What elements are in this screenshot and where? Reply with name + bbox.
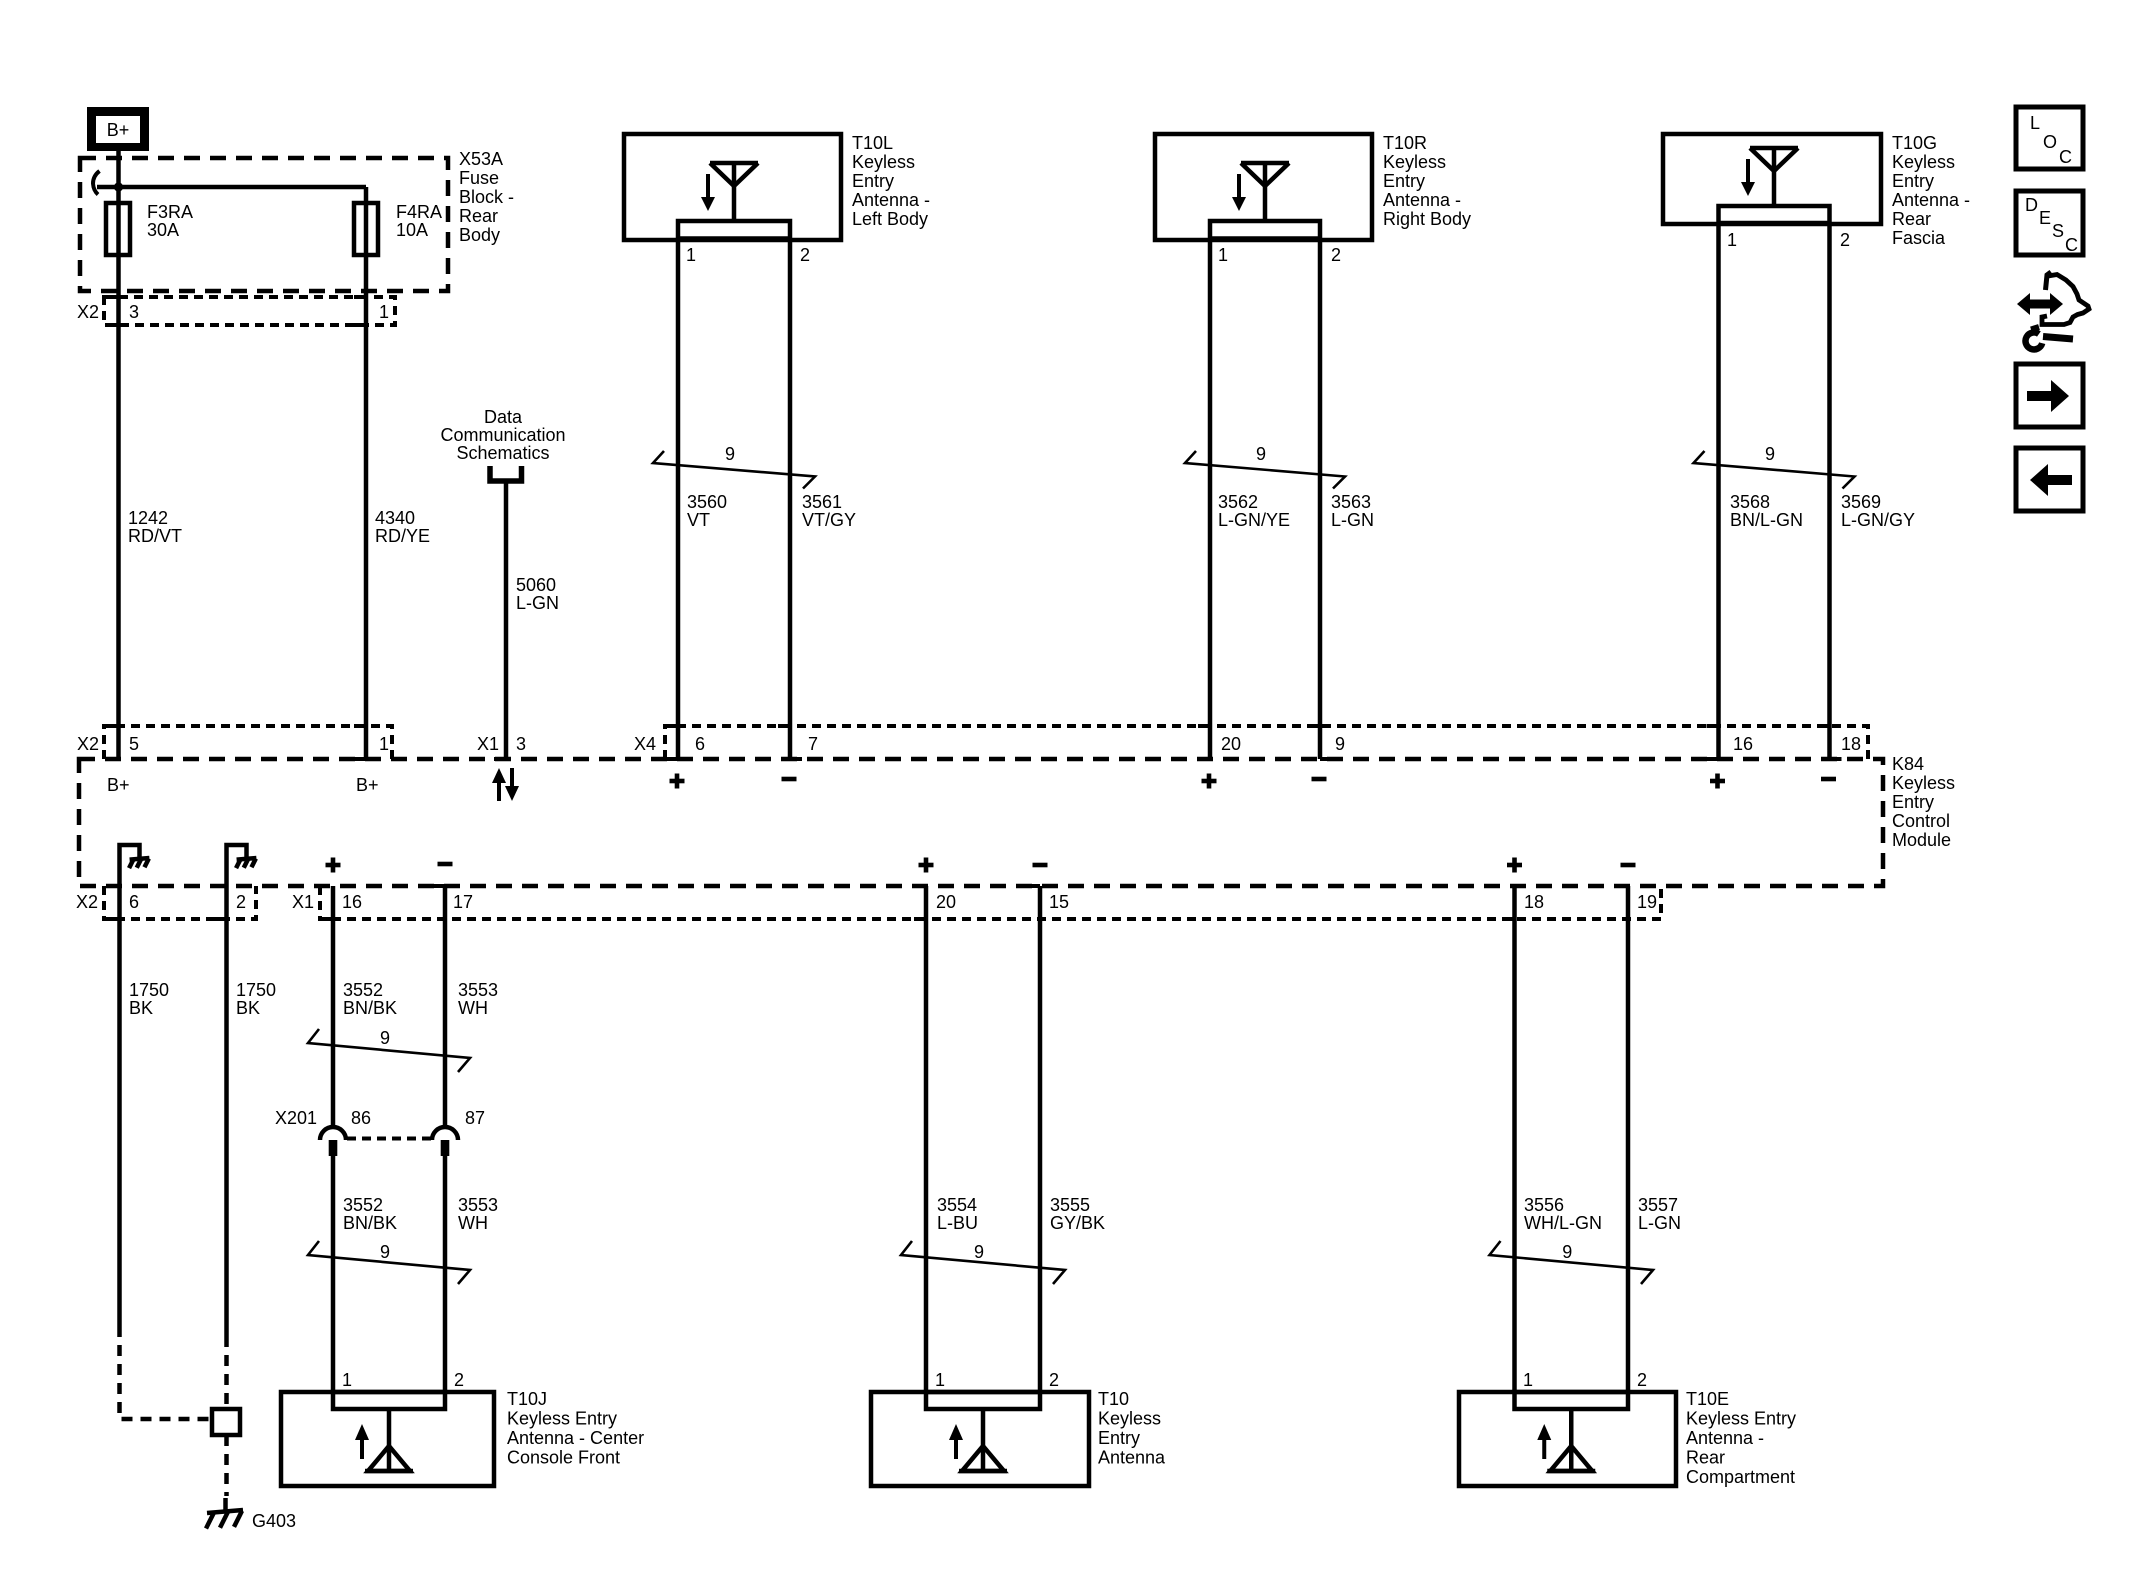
svg-text:2: 2 [1331, 245, 1341, 265]
svg-text:9: 9 [725, 444, 735, 464]
icon LOC box [2016, 107, 2083, 169]
svg-text:D: D [2025, 195, 2038, 215]
svg-text:3553: 3553 [458, 980, 498, 1000]
svg-text:T10J: T10J [507, 1389, 547, 1409]
svg-text:Console Front: Console Front [507, 1448, 620, 1468]
svg-text:2: 2 [236, 892, 246, 912]
svg-text:6: 6 [129, 892, 139, 912]
keyless antenna T10J box [281, 1392, 494, 1486]
svg-text:7: 7 [808, 734, 818, 754]
label T10R Keyless Entry Antenna - Right Body [1383, 133, 1471, 229]
label T10L Keyless Entry Antenna - Left Body [852, 133, 930, 229]
svg-text:O: O [2043, 132, 2057, 152]
svg-text:20: 20 [936, 892, 956, 912]
svg-text:X2: X2 [77, 734, 99, 754]
wire label 3555 GY/BK [1050, 1195, 1105, 1233]
svg-text:L-GN/YE: L-GN/YE [1218, 510, 1290, 530]
svg-text:86: 86 [351, 1108, 371, 1128]
svg-text:B+: B+ [107, 775, 130, 795]
wire 1750 BK from pin X2-2 [224, 886, 229, 1409]
svg-text:B+: B+ [356, 775, 379, 795]
icon next page arrow [2016, 364, 2083, 427]
connector X2 of fuse block (pins 3 and 1) [77, 297, 395, 325]
label X53A Fuse Block - Rear Body [459, 149, 514, 245]
svg-text:Data: Data [484, 407, 523, 427]
wire through fuse F4RA down to K84 pin X2-1 [364, 187, 369, 759]
svg-text:L-GN/GY: L-GN/GY [1841, 510, 1915, 530]
connector X2 top of K84 (pins 5,1) [77, 726, 392, 759]
keyless antenna T10 box [871, 1392, 1089, 1486]
twisted pair marker T10E [1490, 1241, 1654, 1284]
svg-text:1750: 1750 [236, 980, 276, 1000]
wire 5060 L-GN from data link to K84 pin X1-3 [504, 483, 509, 759]
svg-text:9: 9 [1335, 734, 1345, 754]
svg-text:Keyless: Keyless [1098, 1409, 1161, 1429]
node B+ battery terminal [87, 107, 149, 151]
svg-text:3562: 3562 [1218, 492, 1258, 512]
wire label 3553 WH (lower) [458, 1195, 498, 1233]
wire 3561 VT/GY from T10L pin 2 to K84 X4-7 [788, 238, 793, 759]
svg-text:Antenna -: Antenna - [1892, 190, 1970, 210]
svg-text:3556: 3556 [1524, 1195, 1564, 1215]
T10R pin labels 1 and 2 [1218, 245, 1341, 265]
twisted pair marker upper T10J [308, 1028, 470, 1072]
svg-text:3569: 3569 [1841, 492, 1881, 512]
svg-text:3554: 3554 [937, 1195, 977, 1215]
svg-text:Compartment: Compartment [1686, 1467, 1795, 1487]
svg-text:16: 16 [342, 892, 362, 912]
label T10E Keyless Entry Antenna - Rear Compartment [1686, 1389, 1796, 1487]
label K84 Keyless Entry Control Module [1892, 754, 1955, 850]
svg-text:Entry: Entry [852, 171, 894, 191]
svg-text:K84: K84 [1892, 754, 1924, 774]
svg-text:9: 9 [974, 1242, 984, 1262]
T10J pin labels 1 and 2 [342, 1370, 464, 1390]
junction dot at fuse bus [114, 182, 123, 191]
svg-text:2: 2 [800, 245, 810, 265]
svg-text:T10L: T10L [852, 133, 893, 153]
wire label 5060 L-GN [516, 575, 559, 613]
serial data arrows at pin X1-3 [492, 768, 519, 801]
fuse block X53A dashed outline [80, 158, 448, 291]
wire 1750 BK from pin X2-6 [120, 886, 213, 1419]
svg-text:2: 2 [1049, 1370, 1059, 1390]
svg-text:C: C [2065, 235, 2078, 255]
wire label 1750 BK (right) [236, 980, 276, 1018]
polarity marks at bottom pins [326, 858, 1636, 873]
svg-text:3563: 3563 [1331, 492, 1371, 512]
keyless antenna T10G box [1663, 134, 1881, 224]
svg-text:Communication: Communication [440, 425, 565, 445]
svg-text:10A: 10A [396, 220, 428, 240]
svg-text:X2: X2 [77, 302, 99, 322]
svg-text:BN/BK: BN/BK [343, 998, 397, 1018]
wire label 3553 WH (upper) [458, 980, 498, 1018]
svg-text:X53A: X53A [459, 149, 503, 169]
svg-text:1: 1 [935, 1370, 945, 1390]
svg-text:3568: 3568 [1730, 492, 1770, 512]
svg-text:X201: X201 [275, 1108, 317, 1128]
svg-text:1: 1 [379, 302, 389, 322]
svg-text:1750: 1750 [129, 980, 169, 1000]
svg-text:6: 6 [695, 734, 705, 754]
svg-text:Keyless: Keyless [1892, 152, 1955, 172]
wire label 1242 RD/VT [128, 508, 182, 546]
svg-text:Keyless: Keyless [852, 152, 915, 172]
wire 3568 BN/L-GN from T10G pin 1 to K84 pin 16 [1716, 223, 1721, 759]
svg-text:4340: 4340 [375, 508, 415, 528]
connector X1 pin 3 of K84 [477, 734, 526, 759]
label T10 Keyless Entry Antenna [1098, 1389, 1166, 1468]
wire 3555 GY/BK from K84 pin 15 to T10 pin 2 [1038, 886, 1043, 1392]
wire label 1750 BK (left) [129, 980, 169, 1018]
connector pins 20,15 bottom of K84 [914, 886, 1069, 919]
svg-text:3552: 3552 [343, 980, 383, 1000]
svg-text:Body: Body [459, 225, 500, 245]
wire 3560 VT from T10L pin 1 to K84 X4-6 [676, 238, 681, 759]
svg-text:Fascia: Fascia [1892, 228, 1946, 248]
wire internal bus from F3RA to F4RA [97, 185, 366, 190]
wire 3553 WH from K84 X1-17 to X201-87 [443, 886, 448, 1127]
wire 3557 L-GN from K84 pin 19 to T10E pin 2 [1626, 886, 1631, 1392]
svg-text:VT/GY: VT/GY [802, 510, 856, 530]
connector X201 pins 86,87 [275, 1108, 485, 1156]
polarity marks at X4 pins [670, 774, 1837, 789]
svg-text:L-GN: L-GN [1638, 1213, 1681, 1233]
svg-text:E: E [2039, 208, 2051, 228]
svg-text:3560: 3560 [687, 492, 727, 512]
svg-text:Antenna -: Antenna - [1686, 1428, 1764, 1448]
module K84 dashed outline [79, 759, 1883, 886]
svg-text:20: 20 [1221, 734, 1241, 754]
wire label 3561 VT/GY [802, 492, 856, 530]
wire label 3560 VT [687, 492, 727, 530]
svg-text:Module: Module [1892, 830, 1951, 850]
svg-text:15: 15 [1049, 892, 1069, 912]
svg-text:5060: 5060 [516, 575, 556, 595]
keyless antenna T10L box [624, 134, 841, 240]
svg-text:B+: B+ [107, 120, 130, 140]
svg-text:Entry: Entry [1892, 792, 1934, 812]
wire 3562 L-GN/YE from T10R pin 1 to K84 pin 20 [1208, 238, 1213, 759]
svg-text:T10G: T10G [1892, 133, 1937, 153]
svg-text:RD/VT: RD/VT [128, 526, 182, 546]
twisted pair marker T10G [1694, 444, 1855, 489]
svg-text:17: 17 [453, 892, 473, 912]
twisted pair marker T10R [1185, 444, 1345, 489]
svg-text:9: 9 [1256, 444, 1266, 464]
svg-text:Schematics: Schematics [456, 443, 549, 463]
svg-text:S: S [2052, 221, 2064, 241]
svg-text:5: 5 [129, 734, 139, 754]
svg-text:9: 9 [1765, 444, 1775, 464]
svg-text:G403: G403 [252, 1511, 296, 1531]
keyless antenna T10E box [1459, 1392, 1676, 1486]
svg-text:F3RA: F3RA [147, 202, 193, 222]
svg-text:BN/L-GN: BN/L-GN [1730, 510, 1803, 530]
svg-text:Keyless: Keyless [1892, 773, 1955, 793]
node B+ label at pin X2-5 [107, 775, 130, 795]
svg-text:T10R: T10R [1383, 133, 1427, 153]
wire label 3552 BN/BK (upper) [343, 980, 397, 1018]
svg-text:WH: WH [458, 998, 488, 1018]
connector X1 bottom of K84 (pins 16,17 and 20,15,18,19) [292, 886, 1661, 919]
keyless antenna T10R box [1155, 134, 1372, 240]
fuse F4RA 10A [354, 202, 442, 255]
wire label 3557 L-GN [1638, 1195, 1681, 1233]
svg-text:C: C [2059, 147, 2072, 167]
fuse F3RA 30A [106, 202, 193, 255]
svg-text:BK: BK [236, 998, 260, 1018]
svg-text:19: 19 [1637, 892, 1657, 912]
svg-text:Keyless Entry: Keyless Entry [507, 1409, 617, 1429]
wire 3563 L-GN from T10R pin 2 to K84 pin 9 [1318, 238, 1323, 759]
svg-text:X1: X1 [477, 734, 499, 754]
wire 3569 L-GN/GY from T10G pin 2 to K84 pin 18 [1827, 223, 1832, 759]
wire 3556 WH/L-GN from K84 pin 18 to T10E pin 1 [1512, 886, 1517, 1392]
svg-text:Rear: Rear [1686, 1448, 1725, 1468]
icon previous page arrow [2016, 448, 2083, 511]
svg-text:1: 1 [379, 734, 389, 754]
svg-text:9: 9 [380, 1028, 390, 1048]
svg-text:3561: 3561 [802, 492, 842, 512]
svg-text:Control: Control [1892, 811, 1950, 831]
svg-text:X2: X2 [76, 892, 98, 912]
svg-text:1: 1 [1727, 230, 1737, 250]
svg-text:Keyless Entry: Keyless Entry [1686, 1409, 1796, 1429]
svg-text:BK: BK [129, 998, 153, 1018]
svg-text:9: 9 [380, 1242, 390, 1262]
svg-text:3552: 3552 [343, 1195, 383, 1215]
node B+ label at pin X2-1 [356, 775, 379, 795]
svg-text:1: 1 [342, 1370, 352, 1390]
svg-text:2: 2 [1840, 230, 1850, 250]
svg-text:L-BU: L-BU [937, 1213, 978, 1233]
svg-text:X4: X4 [634, 734, 656, 754]
T10L pin labels 1 and 2 [686, 245, 810, 265]
wire label 3569 L-GN/GY [1841, 492, 1915, 530]
wire from B+ through fuse F3RA down to K84 pin X2-5 [116, 151, 121, 759]
svg-text:Right Body: Right Body [1383, 209, 1471, 229]
svg-text:Rear: Rear [1892, 209, 1931, 229]
wire label 3552 BN/BK (lower) [343, 1195, 397, 1233]
wire label 3556 WH/L-GN [1524, 1195, 1602, 1233]
antenna symbol T10G [1741, 148, 1798, 206]
svg-text:87: 87 [465, 1108, 485, 1128]
svg-text:Entry: Entry [1892, 171, 1934, 191]
ground G403 [206, 1510, 296, 1531]
svg-text:WH/L-GN: WH/L-GN [1524, 1213, 1602, 1233]
wire label 4340 RD/YE [375, 508, 430, 546]
svg-text:L-GN: L-GN [516, 593, 559, 613]
T10G pin labels 1 and 2 [1727, 230, 1850, 250]
internal ground at pin X2-2 [227, 845, 257, 886]
svg-text:L-GN: L-GN [1331, 510, 1374, 530]
svg-text:L: L [2030, 113, 2040, 133]
connector X2 bottom of K84 (pins 6,2) [76, 886, 256, 919]
twisted pair marker T10L [653, 444, 815, 489]
svg-text:RD/YE: RD/YE [375, 526, 430, 546]
svg-text:1: 1 [1218, 245, 1228, 265]
svg-text:VT: VT [687, 510, 710, 530]
wire label 3554 L-BU [937, 1195, 978, 1233]
svg-text:Block -: Block - [459, 187, 514, 207]
svg-text:3553: 3553 [458, 1195, 498, 1215]
svg-text:GY/BK: GY/BK [1050, 1213, 1105, 1233]
connector pins 18,19 bottom of K84 [1503, 886, 1658, 919]
off-page link Data Communication Schematics [440, 407, 565, 481]
internal ground at pin X2-6 [120, 845, 150, 886]
svg-text:18: 18 [1841, 734, 1861, 754]
svg-text:2: 2 [1637, 1370, 1647, 1390]
bus splice hook inside fuse block [93, 171, 100, 195]
svg-text:16: 16 [1733, 734, 1753, 754]
svg-text:Antenna: Antenna [1098, 1448, 1166, 1468]
svg-text:Entry: Entry [1098, 1428, 1140, 1448]
icon diagnostic double arrow with wrench [2017, 272, 2089, 349]
connector X4 of K84 (pins 6,7,20,9,16,18) [634, 726, 1868, 759]
svg-text:3: 3 [129, 302, 139, 322]
svg-text:WH: WH [458, 1213, 488, 1233]
wire label 3568 BN/L-GN [1730, 492, 1803, 530]
svg-text:9: 9 [1562, 1242, 1572, 1262]
svg-text:Antenna -: Antenna - [1383, 190, 1461, 210]
svg-text:Keyless: Keyless [1383, 152, 1446, 172]
wire from splice to ground G403 [226, 1435, 227, 1512]
svg-text:T10: T10 [1098, 1389, 1129, 1409]
svg-text:X1: X1 [292, 892, 314, 912]
svg-text:T10E: T10E [1686, 1389, 1729, 1409]
twisted pair marker lower T10J [308, 1241, 470, 1284]
label T10J Keyless Entry Antenna - Center Console Front [507, 1389, 644, 1468]
wire 3553 WH from X201-87 to T10J pin 2 [443, 1156, 448, 1392]
twisted pair marker T10 [901, 1241, 1065, 1284]
svg-text:30A: 30A [147, 220, 179, 240]
svg-text:Antenna -: Antenna - [852, 190, 930, 210]
wire 3554 L-BU from K84 pin 20 to T10 pin 1 [924, 886, 929, 1392]
svg-text:BN/BK: BN/BK [343, 1213, 397, 1233]
label T10G Keyless Entry Antenna - Rear Fascia [1892, 133, 1970, 248]
svg-text:3: 3 [516, 734, 526, 754]
svg-text:Rear: Rear [459, 206, 498, 226]
svg-text:3557: 3557 [1638, 1195, 1678, 1215]
T10E pin labels 1 and 2 [1523, 1370, 1647, 1390]
wire 3552 BN/BK from X201-86 to T10J pin 1 [331, 1156, 336, 1392]
antenna symbol T10L [701, 163, 758, 221]
svg-text:Left Body: Left Body [852, 209, 928, 229]
svg-text:1: 1 [1523, 1370, 1533, 1390]
splice block [212, 1409, 240, 1435]
wire 3552 BN/BK from K84 X1-16 to X201-86 [331, 886, 336, 1127]
svg-text:Antenna - Center: Antenna - Center [507, 1428, 644, 1448]
wire label 3563 L-GN [1331, 492, 1374, 530]
svg-text:Fuse: Fuse [459, 168, 499, 188]
svg-text:1242: 1242 [128, 508, 168, 528]
T10 pin labels 1 and 2 [935, 1370, 1059, 1390]
wire label 3562 L-GN/YE [1218, 492, 1290, 530]
svg-text:F4RA: F4RA [396, 202, 442, 222]
antenna symbol T10R [1232, 163, 1289, 221]
svg-text:1: 1 [686, 245, 696, 265]
svg-text:18: 18 [1524, 892, 1544, 912]
svg-text:3555: 3555 [1050, 1195, 1090, 1215]
svg-text:2: 2 [454, 1370, 464, 1390]
svg-text:Entry: Entry [1383, 171, 1425, 191]
icon DESC box [2016, 191, 2083, 255]
